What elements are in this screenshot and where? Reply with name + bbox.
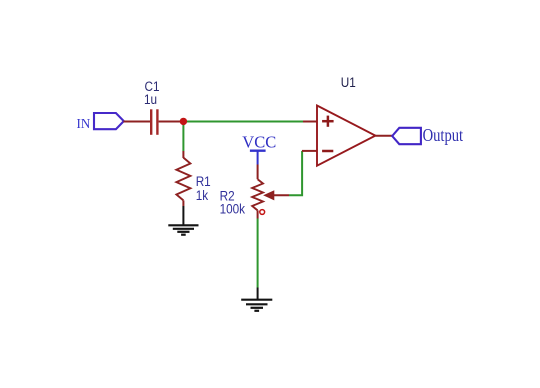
wire R1 top lead	[182, 151, 184, 158]
wire op-amp output	[376, 135, 393, 137]
svg-text:U1: U1	[341, 74, 356, 90]
port Output	[392, 125, 463, 146]
ground for R2	[241, 300, 272, 311]
wire R1 to ground (black)	[182, 206, 184, 225]
svg-text:100k: 100k	[220, 201, 246, 217]
wire ground lead (black)	[257, 288, 259, 300]
wire IN to C1	[123, 121, 150, 123]
wire node A down (green)	[182, 122, 184, 152]
svg-text:IN: IN	[77, 116, 91, 132]
node A junction dot	[180, 118, 187, 125]
wire R2 bottom lead	[257, 210, 259, 218]
capacitor C1	[151, 109, 157, 135]
plus sign	[322, 120, 334, 123]
wire R2 to ground (green)	[257, 219, 259, 288]
wire stub + input	[303, 121, 317, 123]
wire R2 top lead	[257, 165, 259, 180]
op-amp U1	[317, 106, 375, 166]
svg-text:1k: 1k	[196, 187, 209, 203]
ground for R1	[168, 225, 198, 234]
svg-text:Output: Output	[423, 125, 464, 146]
wire wiper (green)	[289, 151, 302, 195]
wire wiper to green	[273, 194, 289, 196]
wire node A to op-amp (green)	[183, 121, 303, 123]
port IN	[77, 113, 124, 131]
wire C1 to node A	[159, 121, 184, 123]
R2 wiper arrow	[264, 191, 274, 200]
potentiometer R2	[252, 179, 263, 210]
minus sign	[322, 150, 333, 153]
svg-text:VCC: VCC	[242, 132, 276, 151]
wire R1 bottom lead	[182, 200, 184, 206]
R2 pin-1 marker circle	[260, 210, 265, 215]
svg-text:1u: 1u	[144, 91, 157, 107]
wire stub - input	[302, 150, 317, 152]
power VCC	[242, 132, 276, 164]
resistor R1	[176, 158, 190, 201]
